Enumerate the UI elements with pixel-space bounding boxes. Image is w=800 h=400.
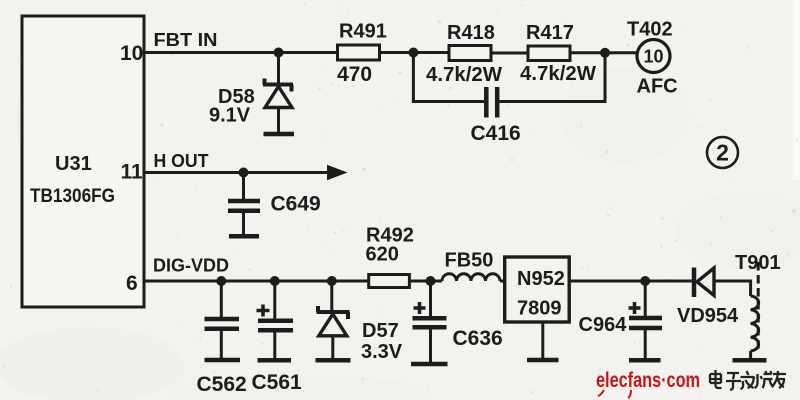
wire T901 core dashed line bbox=[757, 262, 760, 350]
node junction at C636 bbox=[426, 276, 436, 286]
capacitor C636 plus sign bbox=[414, 302, 426, 314]
svg-text:FBT IN: FBT IN bbox=[154, 29, 218, 50]
resistor R417 body bbox=[528, 46, 570, 61]
svg-text:C964: C964 bbox=[579, 314, 628, 336]
ground below C964 bbox=[629, 358, 661, 363]
node chinese text zi bbox=[726, 373, 741, 390]
svg-text:10: 10 bbox=[643, 47, 663, 67]
ground below C649 bbox=[229, 234, 259, 239]
wire FB50 to N952 bbox=[500, 280, 505, 283]
svg-text:T402: T402 bbox=[627, 19, 673, 41]
wire VD954 to T901 bbox=[714, 280, 751, 283]
svg-text:C416: C416 bbox=[471, 122, 521, 145]
node junction at C561 bbox=[270, 276, 280, 286]
svg-text:10: 10 bbox=[120, 42, 143, 65]
svg-text:7809: 7809 bbox=[517, 298, 562, 320]
wire C416 loop bottom left segment bbox=[412, 100, 485, 103]
wire D57 bottom lead bbox=[331, 336, 334, 358]
capacitor C416 plates bbox=[486, 87, 497, 118]
svg-text:U31: U31 bbox=[55, 153, 92, 175]
wire C649 bottom lead bbox=[242, 211, 245, 235]
wire D58 bottom lead bbox=[277, 108, 280, 133]
svg-text:DIG-VDD: DIG-VDD bbox=[153, 255, 229, 276]
node junction right of C416 loop bbox=[600, 48, 610, 58]
svg-text:C636: C636 bbox=[453, 327, 503, 350]
svg-text:4.7k/2W: 4.7k/2W bbox=[520, 63, 596, 85]
wire R492 to FB50 bbox=[409, 280, 442, 283]
svg-text:FB50: FB50 bbox=[445, 250, 494, 272]
svg-text:R491: R491 bbox=[339, 21, 387, 43]
svg-text:TB1306FG: TB1306FG bbox=[30, 185, 115, 207]
resistor R491 body bbox=[338, 45, 380, 60]
svg-text:470: 470 bbox=[337, 63, 372, 86]
wire D58 top lead bbox=[277, 53, 280, 85]
svg-text:3.3V: 3.3V bbox=[361, 341, 403, 363]
wire C636 top lead bbox=[429, 281, 432, 317]
node chinese text you bbox=[772, 371, 786, 388]
ground below D57 bbox=[316, 358, 351, 363]
resistor R492 body bbox=[369, 275, 410, 288]
svg-text:C561: C561 bbox=[252, 371, 303, 394]
svg-text:R418: R418 bbox=[447, 22, 495, 44]
svg-text:R417: R417 bbox=[526, 22, 574, 44]
wire T901 top lead bbox=[749, 280, 752, 297]
node circled 2 page marker bbox=[707, 137, 738, 168]
capacitor D58? no: diode D58 zener symbol bbox=[263, 79, 293, 108]
capacitor C561 plates bbox=[258, 321, 293, 331]
node junction on FBT IN at D58 bbox=[274, 48, 284, 58]
svg-text:620: 620 bbox=[366, 244, 399, 266]
node junction at D57 bbox=[327, 276, 337, 286]
resistor R418 body bbox=[449, 46, 491, 61]
node chinese text fa bbox=[741, 371, 755, 389]
svg-text:N952: N952 bbox=[517, 268, 565, 290]
wire pin10 FBT IN bbox=[144, 51, 338, 54]
svg-text:11: 11 bbox=[121, 161, 144, 184]
svg-text:4.7k/2W: 4.7k/2W bbox=[426, 64, 502, 86]
transformer T402 terminal circle bbox=[637, 40, 670, 73]
ground below N952 bbox=[527, 358, 559, 363]
wire C561 bottom lead bbox=[273, 330, 276, 358]
node chinese text shao bbox=[753, 371, 774, 388]
wire C416 loop right vertical bbox=[604, 53, 607, 102]
ground below C562 bbox=[205, 358, 241, 363]
node junction on H OUT at C649 bbox=[239, 168, 249, 178]
ground below C636 bbox=[411, 362, 448, 367]
capacitor C636 plates bbox=[413, 318, 447, 327]
svg-text:C562: C562 bbox=[197, 373, 247, 396]
node elecfans.com logo bbox=[596, 369, 700, 398]
wire R418 to R417 bbox=[491, 52, 528, 55]
svg-text:VD954: VD954 bbox=[677, 305, 739, 327]
wire T901 bottom lead bbox=[749, 351, 752, 358]
svg-text:elecfans·com: elecfans·com bbox=[596, 369, 700, 392]
wire C416 loop bottom right segment bbox=[498, 100, 607, 103]
op-amp U2? no: regulator N952 7809 box bbox=[505, 257, 570, 322]
svg-text:6: 6 bbox=[126, 272, 138, 295]
node junction left of C416 loop bbox=[408, 48, 418, 58]
node junction at C964 bbox=[640, 276, 650, 286]
ground below C561 bbox=[258, 358, 292, 363]
inductor T901 winding bbox=[751, 296, 759, 351]
wire N952 output bbox=[569, 280, 692, 283]
op-amp U1: IC U31 TB1306FG body bbox=[22, 16, 144, 307]
wire D57 top lead bbox=[330, 281, 333, 311]
wire pin11 H OUT bbox=[144, 171, 332, 174]
wire N952 ground lead bbox=[541, 322, 544, 358]
node junction at C562 bbox=[216, 276, 226, 286]
ground below D58 bbox=[264, 132, 295, 137]
svg-text:T901: T901 bbox=[735, 252, 781, 274]
ground below T901 bbox=[733, 358, 767, 363]
diode VD954 symbol bbox=[694, 268, 714, 298]
wire C964 top lead bbox=[644, 281, 647, 317]
wire C636 bottom lead bbox=[429, 327, 432, 362]
svg-text:H OUT: H OUT bbox=[154, 150, 210, 171]
wire C562 bottom lead bbox=[220, 329, 223, 358]
svg-text:AFC: AFC bbox=[637, 76, 678, 98]
capacitor C964 plates bbox=[629, 318, 662, 328]
wire R417 to T402 bbox=[570, 51, 637, 54]
capacitor C649 plates bbox=[228, 201, 260, 211]
wire C964 bottom lead bbox=[644, 328, 647, 358]
node chinese text dian bbox=[710, 370, 722, 388]
capacitor C561 plus sign bbox=[257, 305, 270, 317]
svg-text:2: 2 bbox=[716, 140, 729, 166]
svg-text:D57: D57 bbox=[362, 320, 399, 342]
capacitor C562 plates bbox=[205, 319, 240, 329]
diode D57 zener symbol bbox=[317, 306, 350, 336]
wire R491 to R418 bbox=[380, 51, 450, 54]
inductor FB50 humps bbox=[442, 274, 500, 281]
wire pin6 DIG-VDD bbox=[144, 280, 369, 283]
wire C416 loop left vertical bbox=[412, 53, 415, 102]
wire C562 top lead bbox=[220, 281, 223, 318]
wire C561 top lead bbox=[273, 281, 276, 320]
wire C649 top lead bbox=[242, 173, 245, 201]
capacitor C964 plus sign bbox=[629, 302, 641, 314]
svg-text:C649: C649 bbox=[271, 193, 321, 216]
wire arrowhead H OUT bbox=[327, 165, 348, 180]
svg-text:9.1V: 9.1V bbox=[209, 105, 251, 127]
